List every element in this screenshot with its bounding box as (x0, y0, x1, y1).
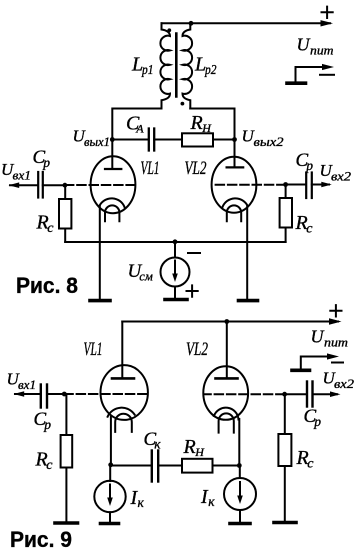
svg-text:Uпит: Uпит (297, 35, 334, 58)
node bias source (173, 239, 178, 244)
svg-text:Uсм: Uсм (128, 261, 153, 284)
arrowhead supply fig9 (329, 318, 342, 324)
capacitor Cp right (306, 173, 312, 199)
svg-text:RН: RН (190, 112, 213, 135)
current source Iк right (224, 478, 256, 510)
svg-text:Rс: Rс (296, 447, 315, 472)
capacitor Cp left (38, 172, 43, 198)
arrowhead input Uвх1 (9, 182, 20, 188)
tube VL1 envelope fig9 (101, 365, 148, 420)
ground bar Uсм (165, 298, 187, 302)
svg-text:Uвых2: Uвых2 (242, 127, 284, 150)
svg-text:VL1: VL1 (141, 158, 160, 179)
junction dot rail VL2 anode (224, 319, 229, 324)
tube VL1 envelope (91, 156, 136, 213)
transformer winding Lp1 (160, 23, 170, 108)
wire anode VL2 fig9 (226, 322, 228, 379)
resistor Rн (182, 133, 213, 146)
wire anode VL1 (111, 140, 113, 169)
wire node to Iк left (109, 465, 111, 481)
node cathode right fig9 (237, 463, 242, 468)
wire Rн to node2 (213, 139, 235, 141)
arrow inside Iк left (109, 485, 111, 502)
phase dot Lp2 (181, 102, 185, 106)
wire cathode VL1 fig9 down (110, 417, 112, 465)
wire Rн to node right fig9 (213, 465, 240, 467)
svg-text:RН: RН (183, 436, 206, 459)
plus sign supply fig9 (330, 305, 341, 316)
ground bar Iк left (101, 522, 119, 526)
grid VL2 (dashed) (214, 184, 286, 186)
wire bias rail (65, 241, 285, 243)
ground bar right (VL2 cathode) (239, 299, 258, 303)
anode plate VL2 fig9 (216, 377, 238, 380)
wire Rc right to rail (285, 228, 287, 243)
wire transformer bottom left (112, 109, 161, 140)
transformer winding Lp2 (183, 23, 193, 108)
node Uвых1 (110, 137, 115, 142)
svg-text:Cр: Cр (296, 150, 314, 173)
arrow inside Uсм (174, 261, 176, 278)
svg-text:Lр1: Lр1 (131, 54, 154, 78)
wire top supply rail (162, 22, 331, 24)
arrowhead input Uвх1 fig9 (14, 391, 25, 397)
svg-text:VL1: VL1 (84, 339, 103, 360)
plus sign Uсм (187, 285, 198, 296)
wire node to Cк fig9 (111, 465, 151, 467)
ground bar of common terminal fig9 (292, 368, 310, 372)
current source Iк left (94, 481, 125, 512)
resistor Rc left fig9 (61, 435, 73, 468)
svg-text:Рис. 8: Рис. 8 (16, 273, 78, 298)
wire node to Rc left fig9 (65, 394, 67, 435)
svg-text:CА: CА (126, 113, 144, 136)
tube VL2 envelope fig9 (203, 366, 248, 420)
wire Cp right to arrow fig9 (313, 393, 338, 395)
wire Cp right to output arrow (312, 184, 329, 186)
wire Iк right to ground (239, 510, 241, 522)
capacitor Cк (152, 451, 158, 482)
svg-text:Cр: Cр (33, 147, 51, 170)
wire CA to Rн (154, 139, 182, 141)
svg-text:Rс: Rс (35, 449, 54, 474)
wire transformer bottom right (190, 109, 234, 140)
grid VL2 fig9 (dashed) (204, 393, 285, 395)
svg-text:Cк: Cк (144, 429, 162, 451)
svg-text:Uвх1: Uвх1 (1, 160, 31, 183)
svg-text:Cр: Cр (34, 409, 52, 432)
ground bar Rc right fig9 (274, 521, 296, 525)
plus sign supply (322, 7, 333, 18)
phase dot Lp1 (167, 28, 171, 32)
resistor Rc right (280, 198, 292, 228)
resistor Rc left (59, 199, 71, 229)
node grid 2 (283, 182, 288, 187)
wire Rc left to rail (64, 229, 66, 243)
capacitor CA (149, 129, 154, 151)
wire node to Rc left (64, 185, 66, 199)
resistor Rн fig9 (182, 459, 213, 473)
capacitor Cp left fig9 (41, 385, 47, 408)
wire input 1 (10, 184, 38, 186)
svg-text:Rс: Rс (36, 212, 55, 237)
arrowhead Uвх2 (321, 182, 332, 188)
svg-text:Rс: Rс (295, 212, 314, 237)
node grid1 fig9 (62, 392, 67, 397)
node grid 1 (63, 183, 68, 188)
wire cathode VL2 fig9 down (238, 419, 240, 466)
heater VL2 fig9 (219, 413, 234, 432)
svg-text:Cр: Cр (304, 406, 322, 429)
wire anode VL2 (234, 140, 236, 168)
resistor Rc right fig9 (278, 434, 291, 466)
arrow inside Iк right (239, 482, 241, 499)
anode plate VL2 (227, 166, 244, 168)
wire Rc left to ground fig9 (65, 468, 67, 522)
svg-text:Lр2: Lр2 (194, 54, 217, 78)
grid VL1 fig9 (dashed) (64, 393, 146, 395)
svg-text:Iк: Iк (130, 487, 145, 510)
cathode arc VL1 (99, 198, 124, 207)
svg-text:Uвх2: Uвх2 (323, 369, 355, 392)
node cathode left fig9 (108, 462, 113, 467)
heater VL1 fig9 (115, 414, 132, 432)
wire cathode VL1 to ground (99, 206, 101, 299)
tube VL2 envelope (212, 157, 257, 213)
capacitor Cp right fig9 (307, 382, 313, 407)
wire node to Iк right (239, 466, 241, 479)
node Uвых2 (232, 137, 237, 142)
ground bar Rc left fig9 (55, 521, 78, 525)
heater VL2 (227, 205, 241, 221)
arrowhead Uвх2 fig9 (330, 391, 341, 397)
common terminal corner symbol fig9 (301, 357, 332, 369)
wire Cp to grid node 1 (43, 184, 65, 186)
wire Uсм to ground (174, 287, 176, 299)
wire node2 to Rc right (285, 185, 287, 199)
svg-text:Uпит: Uпит (311, 327, 349, 350)
wire cathode VL2 to ground (246, 206, 248, 299)
wire anode VL1 fig9 (121, 322, 123, 379)
svg-text:Iк: Iк (200, 486, 215, 509)
wire node1 to CA (112, 139, 148, 141)
transformer core (175, 34, 178, 97)
svg-text:Uвх1: Uвх1 (7, 370, 37, 393)
node grid2 fig9 (282, 392, 287, 397)
wire grid node2 to Cp right fig9 (285, 393, 306, 395)
minus sign Uсм (188, 252, 200, 254)
cathode arc VL2 fig9 (214, 408, 239, 420)
svg-text:VL2: VL2 (185, 158, 207, 179)
wire Cp to node fig9 (47, 393, 64, 395)
svg-text:Uвых1: Uвых1 (73, 127, 111, 150)
wire Iк left to ground (109, 512, 111, 521)
wire top supply rail fig9 (122, 321, 338, 323)
ground bar Iк right (230, 522, 250, 526)
wire node to Rc right fig9 (284, 394, 286, 434)
heater VL1 (105, 205, 119, 221)
svg-text:Uвх2: Uвх2 (320, 161, 352, 184)
anode plate VL1 (105, 168, 121, 170)
arrowhead +Uпит terminal (321, 20, 334, 26)
wire rail to Uсм source (174, 242, 176, 258)
ground bar of common terminal (287, 81, 306, 85)
cathode arc VL1 fig9 (108, 408, 135, 417)
common terminal corner symbol with arrow and minus (296, 67, 328, 82)
grid VL1 (dashed) (65, 184, 135, 186)
wire Cк to Rн fig9 (158, 465, 182, 467)
wire grid node2 to Cp right (286, 184, 306, 186)
cathode arc VL2 (222, 198, 247, 207)
wire input1 fig9 (15, 393, 40, 395)
ground bar left (VL1 cathode) (90, 299, 110, 303)
junction dot transformer top to rail (189, 21, 194, 26)
svg-text:VL2: VL2 (186, 339, 208, 360)
wire Rc right to ground fig9 (284, 466, 286, 521)
anode plate VL1 fig9 (112, 377, 134, 380)
bias source Uсм circle (161, 258, 190, 287)
svg-text:Рис. 9: Рис. 9 (10, 527, 72, 552)
